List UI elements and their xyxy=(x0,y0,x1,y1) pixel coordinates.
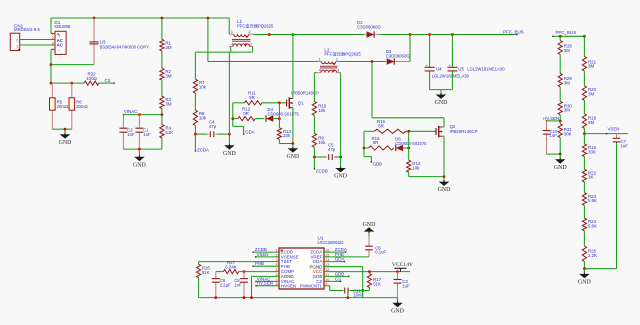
capacitor C7 xyxy=(613,134,629,269)
wire GDB vertical xyxy=(363,131,373,162)
wire ZCD A top row xyxy=(195,51,252,53)
capacitor C2 xyxy=(119,115,135,150)
svg-text:4: 4 xyxy=(231,43,233,47)
net label VSEN at U1 xyxy=(257,252,269,257)
wire bridge bottom to U3 xyxy=(51,64,94,66)
wire CN1 pin2 to D1 xyxy=(20,39,55,41)
capacitor C6 xyxy=(365,237,386,257)
svg-text:B32654A0474K000 COPY: B32654A0474K000 COPY xyxy=(100,44,150,49)
svg-text:1nF: 1nF xyxy=(127,132,135,137)
svg-text:3: 3 xyxy=(52,41,54,45)
svg-text:0.1uF: 0.1uF xyxy=(375,250,386,255)
resistor R20 xyxy=(582,86,596,114)
wire pin6 AGND down xyxy=(252,276,280,297)
ground at bottom bus xyxy=(391,298,405,315)
svg-text:1: 1 xyxy=(319,58,321,62)
svg-text:GND: GND xyxy=(287,154,301,160)
svg-text:3M: 3M xyxy=(588,120,594,125)
svg-text:51K: 51K xyxy=(165,130,173,135)
capacitor C4 xyxy=(194,120,231,137)
wire C10 bottom row xyxy=(547,153,562,156)
wire output bus xyxy=(379,33,518,36)
wire pin11 GDB stub xyxy=(324,276,350,277)
svg-text:CD0603-S01575: CD0603-S01575 xyxy=(268,111,300,116)
ground at C5 xyxy=(334,157,348,180)
svg-text:100Ω: 100Ω xyxy=(86,76,97,81)
capacitor U3 xyxy=(89,18,149,65)
wire pin15 VREF to C6 xyxy=(324,256,369,258)
svg-text:PFC_BUS: PFC_BUS xyxy=(556,30,577,35)
svg-text:PFC变压器PQ2625: PFC变压器PQ2625 xyxy=(237,22,274,29)
resistor R17 xyxy=(367,272,381,291)
svg-text:2.2K: 2.2K xyxy=(588,253,597,258)
wire VINAC bottom xyxy=(123,148,161,151)
transformer L1 xyxy=(229,19,274,46)
wire L1 pin4 drop xyxy=(230,47,232,53)
capacitor U5 xyxy=(447,35,505,90)
svg-text:VINAC: VINAC xyxy=(124,109,139,114)
wire pin9 PWMCNTL jog xyxy=(324,286,344,291)
svg-text:3: 3 xyxy=(250,43,252,47)
wire L2 pin2 to D3 xyxy=(339,60,386,63)
svg-text:C3D06060G: C3D06060G xyxy=(357,25,382,30)
net label PFC_BUS right xyxy=(556,30,577,35)
wire L2 pin4 drop xyxy=(314,73,316,102)
resistor R1 xyxy=(160,18,172,51)
svg-text:10k: 10k xyxy=(318,140,326,145)
resistor R22 xyxy=(582,169,596,193)
resistor R6 xyxy=(69,83,88,129)
svg-text:0R: 0R xyxy=(373,140,379,145)
svg-text:GND: GND xyxy=(435,100,449,106)
transistor Q2 xyxy=(436,124,478,137)
svg-text:LGL2W181MELA30: LGL2W181MELA30 xyxy=(467,67,505,72)
svg-text:0R: 0R xyxy=(243,111,249,116)
junction on bus at R1 xyxy=(161,17,164,20)
wire L1 pin3 drop xyxy=(252,47,254,53)
svg-text:GND: GND xyxy=(391,308,405,314)
net label ZCDA xyxy=(195,134,209,153)
ground at R25 xyxy=(578,269,592,286)
wire pin3 TSET to R26 xyxy=(199,261,279,263)
svg-text:GND: GND xyxy=(223,151,237,157)
wire VSEN node xyxy=(583,132,628,135)
wire pin14 GDA stub xyxy=(324,261,345,262)
wire pin13 PGND down xyxy=(324,267,364,298)
svg-text:1nF: 1nF xyxy=(550,133,558,138)
svg-text:2: 2 xyxy=(336,58,338,62)
svg-text:3K: 3K xyxy=(588,175,593,180)
resistor R21 xyxy=(582,36,596,86)
svg-text:GND: GND xyxy=(334,174,348,180)
svg-text:C3D06060G: C3D06060G xyxy=(386,54,411,59)
svg-text:5.6K: 5.6K xyxy=(588,224,597,229)
net label VINAC xyxy=(124,109,139,114)
wire bus corner to L1 pin1 xyxy=(228,18,230,34)
wire Q1 drain riser xyxy=(292,33,295,98)
svg-text:5.6K: 5.6K xyxy=(588,198,597,203)
capacitor U4 xyxy=(425,35,470,90)
junction on bus at L2 feed xyxy=(207,17,210,20)
bridge rectifier D1 xyxy=(51,20,71,54)
wire shunt node row xyxy=(50,82,85,85)
wire Q2 drain route xyxy=(372,62,444,125)
svg-text:51K: 51K xyxy=(202,270,210,275)
svg-text:10k: 10k xyxy=(199,115,207,120)
svg-text:2: 2 xyxy=(248,30,250,34)
wire pin12 VCC row xyxy=(324,270,410,273)
svg-text:PWMCNTL: PWMCNTL xyxy=(300,283,323,288)
svg-text:KBU808: KBU808 xyxy=(54,24,71,29)
svg-text:CD0603-S01575: CD0603-S01575 xyxy=(395,141,427,146)
resistor R27 xyxy=(216,260,244,274)
svg-text:10nF: 10nF xyxy=(353,293,363,298)
wire pin10 CS stub xyxy=(324,281,341,282)
resistor R30 xyxy=(558,87,572,121)
net label GDB xyxy=(373,162,383,167)
wire HV.SEN node xyxy=(546,120,562,123)
net label ZCDA at U1 xyxy=(335,247,347,252)
net label ZCDB xyxy=(314,157,328,173)
ground at C4 xyxy=(223,134,237,157)
net label VINAC at U1 xyxy=(257,276,270,281)
wire pin1 ZCDB stub xyxy=(252,251,279,252)
resistor R19 xyxy=(582,114,596,134)
resistor R13 xyxy=(277,103,291,144)
net label PFC_BUS left xyxy=(503,30,524,35)
svg-text:5R: 5R xyxy=(249,95,255,100)
svg-text:5R: 5R xyxy=(378,124,384,129)
wire output cap bottom xyxy=(430,89,453,91)
svg-text:10k: 10k xyxy=(199,84,207,89)
svg-text:U4: U4 xyxy=(436,67,442,72)
svg-text:ZCDB: ZCDB xyxy=(316,168,328,173)
net label PHB at U1 left xyxy=(255,261,264,266)
wire pin4 PHB stub xyxy=(252,266,279,267)
svg-text:51K: 51K xyxy=(373,282,381,287)
svg-text:IPB50R140CP: IPB50R140CP xyxy=(450,129,478,134)
svg-text:1uF: 1uF xyxy=(402,283,410,288)
resistor R4 xyxy=(160,115,173,150)
svg-text:30K: 30K xyxy=(564,132,572,137)
wire analog ground bus xyxy=(199,296,398,299)
svg-text:GDB: GDB xyxy=(373,162,383,167)
net label CS xyxy=(105,78,111,83)
op-amp U1 controller UCC28061D xyxy=(276,236,345,289)
resistor R24 xyxy=(582,218,597,246)
net label VSEN xyxy=(608,127,620,132)
wire pin5 COMP row xyxy=(243,270,279,273)
resistor R3 xyxy=(160,80,172,115)
svg-text:2: 2 xyxy=(16,37,18,42)
svg-text:3M: 3M xyxy=(564,108,570,113)
svg-text:UCC28061D: UCC28061D xyxy=(318,240,345,245)
transistor Q1 xyxy=(287,90,320,108)
wire L1 pin2 to D2 xyxy=(253,33,364,36)
svg-text:6.34K: 6.34K xyxy=(225,265,237,270)
svg-text:3M: 3M xyxy=(564,80,570,85)
capacitor C8 xyxy=(234,272,248,298)
wire pin8 HVSEN stub xyxy=(255,285,279,286)
svg-text:HVSEN: HVSEN xyxy=(281,283,296,288)
svg-text:IPB50R140CP: IPB50R140CP xyxy=(291,90,319,95)
wire D3 cathode riser xyxy=(409,35,411,62)
svg-text:2.2μF: 2.2μF xyxy=(220,283,231,288)
svg-text:3M: 3M xyxy=(588,92,594,97)
wire Q1 source xyxy=(279,108,294,145)
wire top input bus xyxy=(51,17,229,19)
ground under C1 C2 xyxy=(133,149,147,168)
svg-text:47p: 47p xyxy=(328,147,336,152)
svg-text:GND: GND xyxy=(59,140,73,146)
ground above C6 xyxy=(363,222,377,237)
svg-text:VSEN: VSEN xyxy=(257,252,269,257)
diode D6 xyxy=(395,136,427,151)
svg-text:VSEN: VSEN xyxy=(608,127,620,132)
resistor R9 xyxy=(312,133,326,157)
wire PFC_BUS right xyxy=(552,35,586,38)
wire L1 pin3 to gnd node xyxy=(228,52,230,134)
svg-text:1nF: 1nF xyxy=(621,143,629,148)
resistor R15 xyxy=(364,136,394,150)
svg-text:10k: 10k xyxy=(283,133,291,138)
resistor R7 xyxy=(193,52,206,93)
wire pin7 VINAC stub xyxy=(255,281,279,282)
net label GDA xyxy=(245,129,255,134)
svg-text:PFC变压器PQ2625: PFC变压器PQ2625 xyxy=(324,50,361,57)
resistor R25 xyxy=(582,246,597,269)
svg-text:1: 1 xyxy=(16,43,18,48)
net label HV.SEN xyxy=(543,116,559,121)
svg-text:3M: 3M xyxy=(165,74,171,79)
svg-text:3M: 3M xyxy=(564,48,570,53)
svg-text:47p: 47p xyxy=(209,124,217,129)
svg-text:GDA: GDA xyxy=(245,129,255,134)
capacitor C10 xyxy=(543,121,558,154)
svg-text:20mΩ: 20mΩ xyxy=(76,104,88,109)
wire CN1 pin1 to D1 xyxy=(20,44,55,46)
net label ZCDB at U1 xyxy=(255,247,267,252)
svg-text:PHB: PHB xyxy=(281,264,290,269)
resistor R31 xyxy=(558,121,572,154)
resistor R11 xyxy=(233,91,287,105)
ground at output caps xyxy=(435,90,449,107)
svg-text:ZCDA: ZCDA xyxy=(197,148,209,153)
wire pin2 VSEN stub xyxy=(255,256,279,257)
svg-text:20mΩ: 20mΩ xyxy=(57,104,69,109)
net label PHB at U1 right xyxy=(335,252,344,257)
resistor R12 xyxy=(233,106,256,120)
svg-text:HV.SEN: HV.SEN xyxy=(257,281,273,286)
svg-text:3: 3 xyxy=(337,69,339,73)
connector CN1 xyxy=(10,23,40,50)
svg-text:GND: GND xyxy=(554,165,568,171)
resistor R5 xyxy=(50,83,69,129)
net label GDB at U1 xyxy=(335,271,345,276)
diode D3 xyxy=(386,49,411,64)
resistor R29 xyxy=(558,55,572,87)
resistor R28 xyxy=(558,36,572,54)
svg-text:GND: GND xyxy=(363,222,377,228)
svg-text:PFC_BUS: PFC_BUS xyxy=(503,30,524,35)
svg-text:CS: CS xyxy=(335,276,341,281)
wire L2 pin3 down xyxy=(340,73,342,157)
net label HV.SEN at U1 xyxy=(257,281,273,286)
junction on bus at U3 xyxy=(93,17,96,20)
wire GDA vertical xyxy=(231,103,244,135)
resistor R10 xyxy=(312,101,327,133)
svg-text:1: 1 xyxy=(231,30,233,34)
svg-text:AC: AC xyxy=(57,43,64,48)
svg-text:GND: GND xyxy=(578,280,592,286)
net label GDA at U1 xyxy=(335,257,345,262)
wire C7 return xyxy=(583,267,617,270)
wire VINAC node xyxy=(123,113,164,116)
svg-text:HV.SEN: HV.SEN xyxy=(543,116,559,121)
svg-text:4: 4 xyxy=(319,69,321,73)
svg-text:PHB: PHB xyxy=(255,261,264,266)
capacitor C9 xyxy=(212,272,231,298)
power port VCC14V xyxy=(392,262,413,272)
capacitor C11 xyxy=(345,288,370,298)
svg-text:10k: 10k xyxy=(412,166,420,171)
wire Q2 drain xyxy=(442,118,444,127)
svg-text:LGL2W181MELA30: LGL2W181MELA30 xyxy=(432,73,470,78)
svg-text:3M: 3M xyxy=(165,102,171,107)
ground under shunts xyxy=(59,129,73,146)
svg-text:10k: 10k xyxy=(318,108,326,113)
capacitor C1 xyxy=(135,115,151,150)
svg-text:MKDS5/2-9.5: MKDS5/2-9.5 xyxy=(14,27,40,32)
resistor R8 xyxy=(193,93,206,134)
wire pin16 ZCDA stub xyxy=(324,251,346,252)
wire phase B feed xyxy=(208,18,318,62)
svg-text:U5: U5 xyxy=(458,67,464,72)
svg-text:Q1: Q1 xyxy=(298,101,304,106)
resistor R16 xyxy=(364,119,436,133)
ground at R31 xyxy=(554,154,568,171)
svg-text:2: 2 xyxy=(52,36,54,40)
svg-text:30K: 30K xyxy=(588,149,596,154)
diode D2 xyxy=(357,20,382,38)
ground at Q1 xyxy=(287,144,301,160)
wire shunt bottom xyxy=(52,128,72,131)
svg-text:3M: 3M xyxy=(588,64,594,69)
resistor R18 xyxy=(582,134,596,170)
ground at Q2 xyxy=(438,177,452,194)
svg-text:1nF: 1nF xyxy=(234,283,242,288)
resistor R23 xyxy=(582,193,597,218)
resistor R2 xyxy=(160,51,172,80)
wire CS net stub xyxy=(99,82,115,83)
svg-text:3M: 3M xyxy=(165,45,171,50)
capacitor C5 xyxy=(313,143,342,160)
svg-text:GND: GND xyxy=(133,162,147,168)
resistor R26 xyxy=(197,262,211,298)
wire D1 pin1 up to bus xyxy=(50,18,52,34)
transformer L2 xyxy=(316,47,361,72)
wire D1 pin4 down xyxy=(50,50,53,84)
svg-text:1nF: 1nF xyxy=(143,132,151,137)
resistor R14 xyxy=(407,131,421,176)
capacitor C3 xyxy=(394,272,411,298)
resistor R32 xyxy=(84,71,99,85)
diode D4 xyxy=(255,107,299,122)
svg-text:CS: CS xyxy=(105,78,111,83)
wire Q2 source xyxy=(409,136,446,178)
svg-text:GDA: GDA xyxy=(335,257,345,262)
net label CS at U1 xyxy=(335,276,341,281)
svg-text:GND: GND xyxy=(438,187,452,193)
svg-text:VCC14V: VCC14V xyxy=(392,262,413,268)
